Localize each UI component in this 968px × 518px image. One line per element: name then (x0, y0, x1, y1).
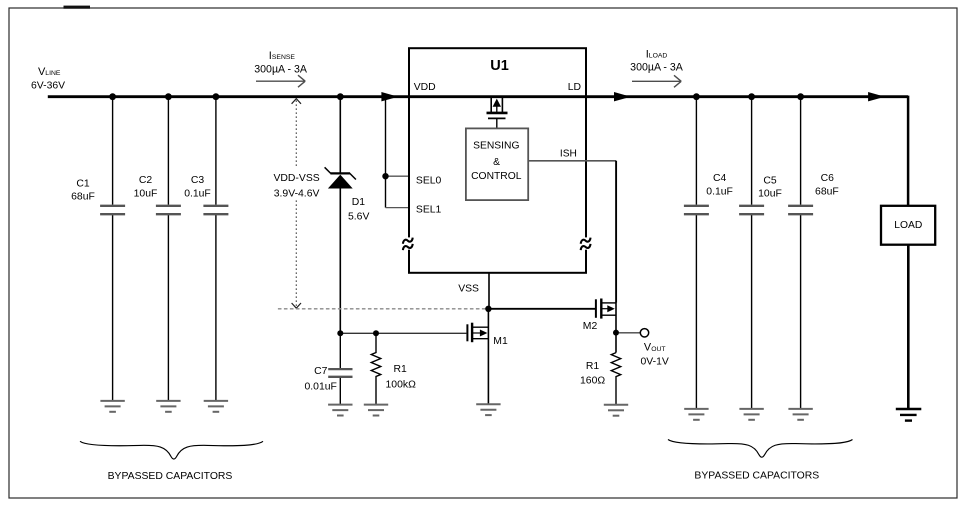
ground for C2 (156, 401, 180, 412)
svg-text:BYPASSED CAPACITORS: BYPASSED CAPACITORS (694, 471, 819, 482)
pin VSS (458, 273, 489, 309)
transistor M2 (583, 299, 616, 353)
svg-text:CONTROL: CONTROL (471, 171, 522, 182)
resistor R1 100k (371, 333, 416, 404)
svg-text:M1: M1 (493, 336, 508, 347)
svg-text:VDD-VSS: VDD-VSS (273, 173, 319, 184)
svg-text:LD: LD (568, 82, 581, 93)
capacitor C3 (184, 97, 228, 401)
svg-text:LINE: LINE (45, 70, 61, 77)
wire SEL tie to VDD (386, 97, 409, 208)
svg-text:C1: C1 (76, 178, 90, 189)
node junction dot C1 (109, 93, 116, 100)
label ISENSE annotation (254, 50, 308, 87)
svg-text:C3: C3 (191, 175, 205, 186)
ground for C7 (328, 405, 352, 416)
block LOAD (881, 206, 935, 245)
capacitor C5 (739, 97, 782, 409)
break squiggle on U1 right edge (580, 237, 592, 250)
svg-text:&: & (493, 157, 500, 168)
svg-text:OUT: OUT (651, 346, 665, 353)
svg-text:68uF: 68uF (71, 192, 95, 203)
svg-text:R1: R1 (393, 364, 407, 375)
node junction dot D1 (337, 93, 344, 100)
annotation dashed VSS level line (278, 308, 596, 310)
annotation right brace (668, 440, 853, 458)
wire LOAD to ground (907, 245, 910, 408)
node junction dot C6 (797, 93, 804, 100)
annotation dotted VDD-VSS measure line (273, 99, 319, 309)
svg-text:300µA - 3A: 300µA - 3A (254, 63, 308, 75)
node junction dot C4 (693, 93, 700, 100)
wire bus right corner down to LOAD (907, 96, 910, 205)
wire main top bus (48, 95, 908, 98)
capacitor C2 (134, 97, 181, 401)
transistor M1 (467, 309, 508, 404)
node junction dot C7 (337, 330, 343, 336)
svg-text:U1: U1 (490, 58, 509, 74)
svg-text:0.1uF: 0.1uF (706, 187, 733, 198)
ground for R1 100k (364, 405, 388, 416)
svg-text:BYPASSED CAPACITORS: BYPASSED CAPACITORS (108, 471, 233, 482)
svg-text:ISH: ISH (560, 148, 577, 159)
ground for C1 (100, 401, 124, 412)
wire ISH (529, 148, 617, 303)
svg-text:C4: C4 (713, 173, 727, 184)
ground for C5 (739, 409, 763, 420)
arrow on bus after LD (614, 92, 631, 101)
svg-text:0V-1V: 0V-1V (641, 356, 669, 367)
svg-text:160Ω: 160Ω (580, 376, 605, 387)
node junction dot VOUT (613, 330, 619, 336)
svg-text:R1: R1 (586, 361, 600, 372)
capacitor C1 (71, 97, 125, 401)
resistor R1 160 (580, 353, 621, 405)
ground for C6 (788, 409, 812, 420)
wire gate node (D1/C7/R1 to M1 gate) (340, 332, 466, 334)
wire VSS node to M2 gate (488, 308, 596, 310)
svg-text:10uF: 10uF (134, 188, 158, 199)
svg-text:C6: C6 (821, 173, 835, 184)
label ILOAD annotation (630, 48, 684, 87)
node VLINE label (31, 66, 65, 92)
svg-text:LOAD: LOAD (649, 53, 668, 60)
ground for C4 (684, 409, 708, 420)
zener diode D1 (325, 97, 370, 334)
capacitor C4 (684, 97, 733, 409)
node junction dot R1 (373, 330, 379, 336)
IC U1 box (409, 48, 586, 273)
arrow on bus before LOAD (868, 92, 885, 101)
label VOUT (641, 342, 669, 368)
capacitor C7 (305, 333, 353, 404)
svg-text:LOAD: LOAD (894, 220, 922, 231)
annotation left brace (80, 441, 263, 459)
svg-text:C7: C7 (314, 366, 328, 377)
svg-text:6V-36V: 6V-36V (31, 81, 65, 92)
svg-text:SEL1: SEL1 (416, 205, 442, 216)
capacitor C6 (788, 97, 839, 409)
svg-text:VSS: VSS (458, 283, 479, 294)
svg-text:0.1uF: 0.1uF (184, 188, 211, 199)
svg-text:SENSING: SENSING (473, 141, 519, 152)
svg-text:68uF: 68uF (815, 187, 839, 198)
svg-text:10uF: 10uF (758, 189, 782, 200)
svg-text:3.9V-4.6V: 3.9V-4.6V (274, 188, 320, 199)
svg-text:C5: C5 (763, 176, 777, 187)
break squiggle on U1 left edge (402, 237, 414, 250)
transistor sense-FET inside U1 (487, 97, 508, 129)
svg-text:VDD: VDD (414, 82, 436, 93)
svg-text:M2: M2 (583, 321, 598, 332)
svg-text:SENSE: SENSE (272, 54, 296, 61)
svg-text:5.6V: 5.6V (348, 212, 369, 223)
node junction dot C5 (748, 93, 755, 100)
terminal VOUT circle (619, 329, 649, 337)
block SENSING & CONTROL (466, 128, 528, 200)
node junction dot VSS (485, 306, 491, 312)
ground for M1 (476, 404, 500, 415)
node junction dot SEL0 (382, 173, 388, 179)
svg-text:300µA - 3A: 300µA - 3A (630, 62, 684, 74)
ground for C3 (204, 401, 228, 412)
svg-text:D1: D1 (352, 197, 366, 208)
svg-text:C2: C2 (139, 175, 153, 186)
ground for R1 160 (604, 405, 628, 416)
arrow on bus into VDD (381, 92, 398, 101)
ground for LOAD (896, 409, 922, 421)
svg-text:SEL0: SEL0 (416, 176, 442, 187)
svg-text:0.01uF: 0.01uF (305, 382, 337, 393)
node junction dot C2 (165, 93, 172, 100)
node junction dot C3 (213, 93, 220, 100)
svg-text:100kΩ: 100kΩ (386, 379, 417, 390)
